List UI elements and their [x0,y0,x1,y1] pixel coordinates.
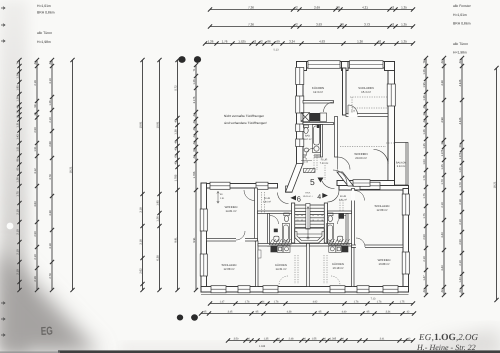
svg-text:3.41: 3.41 [380,338,385,341]
svg-text:1.26: 1.26 [423,69,426,75]
svg-text:1.36: 1.36 [16,96,19,102]
svg-text:13.88 m²: 13.88 m² [378,262,389,266]
small dim marker wohnen6 [217,191,219,203]
door arc bad4 [338,216,347,225]
svg-text:1.76: 1.76 [423,175,426,181]
svg-text:1.25: 1.25 [441,164,444,170]
pier top-left corner [297,62,307,71]
svg-text:1.76: 1.76 [377,301,382,304]
svg-text:1.75: 1.75 [16,191,19,197]
svg-text:1.OG: 1.OG [434,333,457,343]
svg-text:3.43: 3.43 [441,232,444,238]
svg-text:68: 68 [193,148,196,151]
svg-text:3.43: 3.43 [441,265,444,271]
svg-text:4.93: 4.93 [319,40,325,44]
window bath small [296,124,304,132]
svg-text:30: 30 [459,144,462,147]
svg-text:42: 42 [423,119,426,122]
window lw bottom 2 [238,286,250,293]
window lw right 1 [402,194,409,215]
dashed door arc kueche4 [331,276,340,285]
kitchen sink unit with X [301,113,310,122]
sheet edge marks bottom-left [1,302,5,337]
svg-text:4.445: 4.445 [459,117,462,124]
door gap kueche6 [258,250,261,258]
svg-text:34: 34 [423,112,426,115]
svg-text:1.26: 1.26 [423,129,426,135]
svg-text:3.50: 3.50 [234,338,239,341]
svg-text:2.19: 2.19 [34,80,37,86]
svg-text:1.785: 1.785 [174,174,177,181]
wall lower-wing left [201,183,207,292]
room label FLUR 4 [339,195,347,202]
svg-text:H=1,98m: H=1,98m [37,40,51,44]
svg-text:1.26: 1.26 [16,177,19,183]
apartment number 4 with triangle [317,193,328,201]
svg-text:1.26: 1.26 [156,216,159,222]
svg-text:14.81 m²: 14.81 m² [225,209,236,213]
svg-text:Nicht vermaßte Türöffnungen: Nicht vermaßte Türöffnungen [224,114,264,118]
svg-text:1.76: 1.76 [354,301,359,304]
window lw top 2 [256,182,268,189]
svg-text:3.93: 3.93 [316,23,322,27]
svg-text:3.10: 3.10 [49,78,52,84]
stair stringer gap [306,204,310,230]
wall flur4 bottom / bad top [328,211,352,214]
window lw bottom 6 [383,286,398,293]
svg-text:2.10: 2.10 [16,269,19,275]
svg-text:1.95: 1.95 [423,82,426,88]
room label WOHNEN upper [354,152,367,160]
pier top-mid [342,62,349,71]
dimension chain top T2 [210,26,413,28]
scan punch dot bottom B [191,314,198,320]
svg-text:7.36: 7.36 [248,6,254,10]
svg-text:1.55: 1.55 [312,338,317,341]
balcony outline [395,143,409,186]
svg-text:2.18: 2.18 [459,199,462,205]
svg-text:EG: EG [41,325,54,338]
svg-text:FLUR: FLUR [321,159,328,162]
svg-text:18.21: 18.21 [493,181,496,188]
svg-text:1.525: 1.525 [238,40,246,44]
svg-text:1.35: 1.35 [401,40,407,44]
svg-text:71: 71 [193,68,196,71]
svg-text:BRH 0,86m: BRH 0,86m [453,22,471,26]
door arc wohnen6 [236,231,245,240]
scan punch dot top A [178,56,185,63]
svg-text:42: 42 [259,40,263,44]
bathtub apartment 6 [282,224,289,243]
svg-text:42: 42 [174,147,177,150]
toilet apartment 4 [328,213,333,222]
svg-text:1.76: 1.76 [274,301,279,304]
svg-text:1.35: 1.35 [401,23,407,27]
svg-text:BALKON: BALKON [396,162,406,165]
svg-text:alle Türen: alle Türen [37,31,52,35]
svg-text:1.43: 1.43 [16,134,19,140]
scan punch dot bottom A [177,315,183,321]
door arc schlafen4 entry [355,191,365,201]
svg-text:1.38: 1.38 [174,129,177,135]
dimension chain left L1 [19,60,21,290]
kitchen row apartment 6 [277,246,290,253]
svg-text:2.19: 2.19 [34,276,37,282]
svg-text:43: 43 [16,105,19,108]
svg-text:1.47: 1.47 [220,301,225,304]
dimension chain bottom B1 [210,303,413,305]
svg-text:85: 85 [16,167,19,170]
svg-text:1.75: 1.75 [400,301,405,304]
svg-text:2.78: 2.78 [49,273,52,279]
svg-text:42: 42 [174,119,177,122]
wall lower-wing top-left [201,184,278,189]
svg-text:42: 42 [193,141,196,144]
plinth line below bottom wall [201,294,409,296]
svg-text:98: 98 [16,158,19,161]
svg-text:H=1,01m: H=1,01m [37,4,51,8]
svg-text:1.47: 1.47 [423,275,426,281]
dimension chain right R1 [425,58,427,295]
door arc apartment6 entrance [278,193,289,204]
svg-text:1.31: 1.31 [16,122,19,128]
svg-text:3.38: 3.38 [49,210,52,216]
svg-text:12: 12 [312,214,314,217]
flue dashed apartment 4 [324,200,343,284]
svg-text:2.10: 2.10 [459,260,462,266]
svg-text:9.91: 9.91 [174,237,177,243]
svg-text:15.4 m²: 15.4 m² [361,90,371,94]
svg-text:1.75: 1.75 [423,193,426,199]
svg-text:5: 5 [310,177,315,187]
wall lower-wing right [403,189,409,293]
wash basin [304,148,309,152]
wall bath top [303,123,334,125]
svg-text:42: 42 [193,155,196,158]
svg-text:45: 45 [174,140,177,143]
wall bad6 left [268,214,270,247]
dashed flue lines flur [314,155,325,180]
door arc schlafen [348,105,358,115]
basin apartment 4 [338,236,343,241]
svg-text:1.03: 1.03 [423,159,426,165]
door gap schlafen4 left wall [351,191,355,201]
kitchen stove (dark) [310,113,321,122]
svg-text:EG,: EG, [418,332,434,342]
dimension chain bottom B3 [228,340,413,342]
svg-text:03: 03 [296,219,298,222]
small dim 76/1.00 [304,158,309,164]
svg-text:1.25: 1.25 [459,167,462,173]
handwritten title: EG, 1.OG, 2.OG [418,332,478,343]
note text top-left: door heights [37,31,52,44]
svg-text:13.18 m²: 13.18 m² [332,266,343,270]
window lw bottom 3 [263,286,278,293]
bathtub [313,125,321,153]
dimension chain middle M2 [159,60,161,290]
wall wohnen6-schlafen divider [207,239,258,242]
svg-text:69: 69 [276,40,280,44]
room label BAD upper [303,135,311,142]
entrance step hatched block [304,169,316,173]
flue dashed apartment 6 [262,192,299,284]
window wc small [296,139,304,147]
svg-text:H.- Heine - Str. 22: H.- Heine - Str. 22 [416,343,476,352]
svg-text:42: 42 [34,61,37,64]
svg-text:58: 58 [34,104,37,107]
svg-text:2.10: 2.10 [16,249,19,255]
door gap bath [306,155,314,158]
svg-text:7.36: 7.36 [248,23,254,27]
wall flur6 bottom / bad top [258,211,292,214]
vestibule splayed wall right [337,172,354,186]
svg-text:18.21: 18.21 [69,166,72,173]
note text top-right: all doors [453,42,468,55]
wall lower-wing top-right [339,186,409,191]
svg-text:10.91: 10.91 [156,121,159,128]
svg-text:42: 42 [391,6,395,10]
svg-text:BRH 0,86m: BRH 0,86m [37,11,55,15]
entry door arc apartment 5 [333,170,347,184]
svg-text:1.75: 1.75 [423,213,426,219]
dimension chain top T1 [210,9,413,11]
wall wohnen6-flur divider [255,188,258,241]
svg-text:74: 74 [16,61,19,64]
svg-text:1.35: 1.35 [401,6,407,10]
room label KUECHE upper [312,86,324,94]
boiler dark [317,125,320,128]
svg-text:TR.H.: TR.H. [305,192,311,195]
bottom-right corner shading [430,330,500,353]
svg-text:8.81 m²: 8.81 m² [339,199,347,202]
room label FLUR 6 [263,197,271,204]
svg-text:17: 17 [317,219,319,222]
window lw junction [353,180,370,187]
svg-text:20.03 m²: 20.03 m² [355,156,366,160]
svg-text:4.38: 4.38 [441,80,444,86]
svg-text:1.70: 1.70 [441,179,444,185]
wall kueche-schlafen divider [343,68,347,115]
window upper top-right [350,61,384,69]
svg-text:2.68: 2.68 [49,141,52,147]
stair winder spill left [269,239,292,245]
svg-text:1.26: 1.26 [208,40,214,44]
svg-text:3.45: 3.45 [228,311,233,314]
door arc wohnen-corridor [338,157,351,170]
svg-text:12.08 m²: 12.08 m² [376,208,387,212]
window lw left 1 [200,209,207,231]
svg-text:42: 42 [391,23,395,27]
door gap wohnen6 [236,238,245,242]
wall schlafen4-wohnen divider [352,245,404,248]
room label WOHNEN 6 [225,205,238,213]
svg-text:4.38: 4.38 [287,311,292,314]
svg-text:2.50: 2.50 [34,231,37,237]
svg-text:13.61 m² ✓: 13.61 m² ✓ [303,195,314,198]
sheet edge marks top-left [1,7,5,43]
svg-text:42: 42 [441,289,444,292]
svg-text:78: 78 [423,60,426,63]
svg-text:4.84 m²: 4.84 m² [263,201,271,204]
svg-text:02: 02 [301,219,303,222]
svg-text:3.24: 3.24 [289,40,295,44]
door arc apartment4 entrance [328,191,340,203]
svg-text:1.70: 1.70 [459,182,462,188]
svg-text:3.78: 3.78 [49,174,52,180]
svg-text:H=1,01m: H=1,01m [453,13,467,17]
svg-text:7.13: 7.13 [371,298,376,301]
svg-text:18: 18 [321,219,323,222]
note text: Nicht vermasste Tueroeffnungen [224,114,267,125]
wall bad4 right [346,214,348,247]
room label KUECHE 6 [275,263,287,271]
svg-text:45: 45 [193,127,196,130]
wall kueche6 top [258,244,307,247]
stair up arrow [307,207,309,240]
svg-text:28: 28 [336,6,340,10]
svg-text:4.92: 4.92 [313,301,318,304]
dimension chain left L4 [72,60,74,290]
window lw bottom 5 [357,286,369,293]
svg-text:2.10: 2.10 [16,209,19,215]
svg-text:26: 26 [34,112,37,115]
note text top-left: window heights [37,4,55,15]
dimension chain middle M3 [177,60,179,290]
svg-text:3.12: 3.12 [34,168,37,174]
punch hole (white) [7,223,14,230]
tread number smudges [296,214,323,222]
wall upper-wing left [297,62,304,165]
svg-text:26: 26 [16,110,19,113]
svg-text:1.35: 1.35 [264,338,269,341]
door arc kueche [324,102,334,112]
window lw top 3 [360,182,380,189]
wall flur4-schlafen divider [352,189,355,248]
svg-text:38: 38 [441,141,444,144]
svg-text:2.50: 2.50 [34,127,37,133]
bottom-left scan shadow wedge [0,250,100,353]
svg-text:10.91: 10.91 [139,121,142,128]
svg-text:42: 42 [49,61,52,64]
svg-text:42: 42 [294,6,298,10]
svg-text:42: 42 [459,289,462,292]
wall bath bottom [303,155,321,157]
svg-text:1.375: 1.375 [459,152,462,159]
stair treads [295,205,325,227]
wall kueche4 top [309,244,351,247]
svg-text:1.95: 1.95 [16,85,19,91]
svg-text:3.18: 3.18 [139,207,142,213]
svg-text:1.785: 1.785 [193,171,196,178]
wall bath-flur divider [321,125,323,158]
kitchen row apartment 4 [329,246,342,253]
bottom band shading [120,344,500,353]
svg-text:alle Türen: alle Türen [453,42,468,46]
vestibule splayed wall left [286,164,304,193]
toilet [304,125,309,134]
svg-text:28: 28 [340,23,344,27]
svg-text:2.10: 2.10 [16,229,19,235]
svg-text:2.48: 2.48 [289,338,294,341]
wall kueche center divider [307,244,310,287]
svg-text:1.26: 1.26 [16,73,19,79]
dimension chain left L2 [36,60,38,290]
left scan shadow strip [0,0,28,353]
svg-text:4.40: 4.40 [342,311,347,314]
dashed door arc kueche6 [279,276,288,285]
svg-text:3.63: 3.63 [34,201,37,207]
svg-text:16: 16 [312,219,314,222]
svg-text:1.375: 1.375 [441,149,444,156]
winder fan lines [295,229,325,238]
svg-text:3.34 m²: 3.34 m² [397,165,406,168]
balcony door opening [388,162,394,180]
svg-text:2.10: 2.10 [423,256,426,262]
wall corridor-wohnen [335,117,338,158]
bathtub apartment 4 [327,224,334,243]
svg-text:9.91: 9.91 [193,237,196,243]
entrance door number 5 with triangle [310,177,324,187]
toilet apartment 6 [284,213,289,222]
dashed lines schlafen [350,97,387,113]
svg-text:1.35: 1.35 [423,143,426,149]
svg-text:14.31 m²: 14.31 m² [275,267,286,271]
dimension chain right R4 [496,68,498,300]
svg-text:1.26: 1.26 [49,100,52,106]
wall lower-wing bottom [201,287,409,293]
room label WOHNEN 4 [378,258,391,266]
svg-text:05: 05 [301,214,303,217]
svg-text:1.95: 1.95 [156,200,159,206]
door arc wohnen6 top [244,190,255,201]
svg-text:12.3 m²: 12.3 m² [313,90,323,94]
dimension chain middle M4 [195,65,197,290]
svg-text:12.08 m²: 12.08 m² [223,267,234,271]
svg-text:2.10: 2.10 [34,254,37,260]
window kitchen left [296,68,304,85]
svg-text:3.67 m²: 3.67 m² [303,138,311,141]
svg-text:1.76: 1.76 [222,40,228,44]
svg-text:13: 13 [16,115,19,118]
window lw bottom 1 [211,286,226,293]
svg-text:4.445: 4.445 [459,79,462,86]
wall upper-wing top [297,62,395,69]
window lw right 2 [402,252,409,274]
wall schlafen6-kueche divider [256,241,259,287]
svg-text:4.21: 4.21 [362,6,368,10]
svg-text:1.43: 1.43 [459,277,462,283]
svg-text:41: 41 [193,120,196,123]
boiler dark apartment 6 [274,229,278,233]
wall landing top-left stub [286,186,293,192]
svg-text:2.10: 2.10 [441,202,444,208]
bottom scan edge line [58,350,500,353]
svg-text:5.13: 5.13 [273,49,279,52]
svg-text:1.285: 1.285 [330,338,337,341]
svg-text:45: 45 [423,105,426,108]
svg-text:sind vorhandene Türöffnungen!: sind vorhandene Türöffnungen! [224,121,267,125]
window lw top 1 [210,182,230,189]
stair winder spill right [328,239,350,245]
svg-text:1.36: 1.36 [423,95,426,101]
svg-text:04: 04 [296,214,298,217]
wall schlafen-wohnen divider [346,114,388,117]
svg-text:14: 14 [321,214,323,217]
svg-text:3.73: 3.73 [364,23,370,27]
boiler dark apartment 4 [339,213,345,219]
kitchen unit [320,113,327,122]
dimension chain left L3 [51,60,53,290]
